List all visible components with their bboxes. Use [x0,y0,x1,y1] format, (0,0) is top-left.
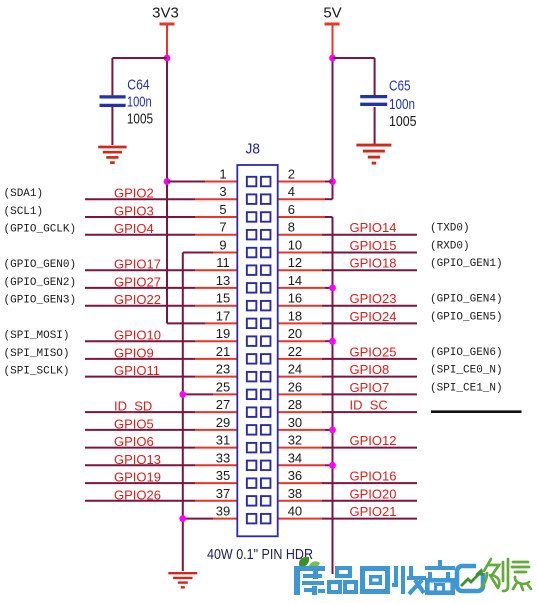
ground under C65 [356,144,391,147]
wire pin 27 [85,411,237,413]
junction 5V/C65 [329,55,336,62]
connector J8 [237,165,277,536]
svg-text:28: 28 [288,397,302,412]
wire pin 30 [278,429,333,431]
wire pin 14 [278,287,333,289]
svg-text:GPIO7: GPIO7 [350,380,390,395]
svg-text:GPIO14: GPIO14 [350,220,397,235]
svg-text:(SPI_MOSI): (SPI_MOSI) [4,330,70,342]
svg-text:(GPIO_GEN3): (GPIO_GEN3) [4,295,77,307]
wire pin 16 [278,305,417,307]
wire pin 6 [278,216,333,218]
wire pin 37 [85,500,237,502]
junction GND/pin 14 [329,285,336,292]
unconnected net line (right, row 28) [431,410,522,413]
svg-text:100n: 100n [127,93,152,110]
svg-text:(SPI_CE0_N): (SPI_CE0_N) [430,365,503,377]
wire pin 17 [167,322,237,324]
svg-text:GPIO17: GPIO17 [114,257,161,272]
svg-text:GPIO10: GPIO10 [114,328,161,343]
svg-text:34: 34 [288,450,302,465]
svg-text:GPIO16: GPIO16 [350,469,397,484]
svg-text:GPIO23: GPIO23 [350,291,397,306]
wire pin 2 [278,181,333,183]
wire pin 24 [278,376,417,378]
wire pin 28 [278,411,417,413]
svg-text:20: 20 [288,326,302,341]
svg-text:(TXD0): (TXD0) [430,223,470,235]
wire pin 38 [278,500,417,502]
svg-text:26: 26 [288,379,302,394]
junction GND/pin25 [179,391,186,398]
wire pin 36 [278,482,417,484]
svg-text:8: 8 [288,220,295,235]
svg-text:(GPIO_GEN5): (GPIO_GEN5) [430,311,503,323]
wire pin 29 [85,429,237,431]
svg-text:39: 39 [216,504,230,519]
svg-text:(SPI_SCLK): (SPI_SCLK) [4,366,70,378]
svg-text:18: 18 [288,308,302,323]
svg-text:22: 22 [288,344,302,359]
svg-text:2: 2 [288,167,295,182]
svg-text:GPIO25: GPIO25 [350,344,397,359]
svg-text:GPIO20: GPIO20 [350,486,397,501]
svg-text:3V3: 3V3 [152,5,179,22]
junction GND/pin 30 [329,427,336,434]
svg-text:27: 27 [216,397,230,412]
GND rail right wire [332,217,334,574]
wire pin 10 [278,252,417,254]
svg-text:(SCL1): (SCL1) [4,206,44,218]
svg-text:GPIO3: GPIO3 [114,204,154,219]
svg-text:1: 1 [219,167,226,182]
svg-text:17: 17 [216,308,230,323]
svg-text:3: 3 [219,184,226,199]
svg-text:ID_SC: ID_SC [350,398,388,413]
power symbol 3V3 [152,5,179,59]
wire to C65 [333,57,375,59]
svg-text:14: 14 [288,273,302,288]
junction 3V3/C64 [164,55,171,62]
svg-text:GPIO9: GPIO9 [114,345,154,360]
svg-text:38: 38 [288,486,302,501]
svg-text:GPIO12: GPIO12 [350,433,397,448]
svg-text:7: 7 [219,220,226,235]
wire pin 40 [278,518,417,520]
svg-text:35: 35 [216,468,230,483]
wire pin 32 [278,447,417,449]
wire pin 23 [85,376,237,378]
svg-text:5: 5 [219,202,226,217]
svg-text:(GPIO_GEN4): (GPIO_GEN4) [430,294,503,306]
svg-text:12: 12 [288,255,302,270]
svg-text:32: 32 [288,433,302,448]
wire pin 35 [85,482,237,484]
svg-text:GPIO19: GPIO19 [114,470,161,485]
svg-text:16: 16 [288,291,302,306]
junction 3V3/pin1 [164,178,171,185]
svg-text:11: 11 [216,255,230,270]
svg-text:(GPIO_GEN6): (GPIO_GEN6) [430,347,503,359]
svg-text:ID_SD: ID_SD [114,399,152,414]
svg-text:37: 37 [216,486,230,501]
svg-text:J8: J8 [246,141,260,158]
capacitor C65 [360,58,416,145]
svg-text:(GPIO_GEN0): (GPIO_GEN0) [4,259,77,271]
svg-text:24: 24 [288,362,302,377]
wire pin 8 [278,234,417,236]
svg-text:100n: 100n [389,96,415,113]
ground under C64 [98,146,126,149]
svg-text:(GPIO_GCLK): (GPIO_GCLK) [4,224,77,236]
svg-text:GPIO22: GPIO22 [114,292,161,307]
junction 5V/pin2 [329,178,336,185]
svg-text:(SDA1): (SDA1) [4,188,44,200]
pin numbers [216,167,302,519]
wire pin 3 [85,198,237,200]
svg-text:36: 36 [288,468,302,483]
wire pin 22 [278,358,417,360]
wire to C64 [112,57,167,59]
svg-text:GPIO21: GPIO21 [350,504,397,519]
svg-text:GPIO24: GPIO24 [350,309,397,324]
wire pin 13 [85,287,237,289]
wire pin 21 [85,358,237,360]
svg-text:GPIO5: GPIO5 [114,416,154,431]
wire pin 20 [278,340,333,342]
svg-text:15: 15 [216,291,230,306]
junction GND/pin 34 [329,462,336,469]
wire pin 26 [278,393,417,395]
svg-text:(GPIO_GEN1): (GPIO_GEN1) [430,258,503,270]
wire pin 9 [183,252,238,254]
GND rail left wire [182,253,184,572]
svg-text:GPIO11: GPIO11 [114,363,160,378]
svg-text:GPIO8: GPIO8 [350,362,390,377]
svg-text:10: 10 [288,238,302,253]
svg-text:(GPIO_GEN2): (GPIO_GEN2) [4,277,77,289]
svg-text:C64: C64 [127,77,149,94]
svg-text:GPIO18: GPIO18 [350,256,397,271]
wire pin 12 [278,269,417,271]
wire pin 7 [85,234,237,236]
wire pin 25 [183,393,238,395]
svg-text:29: 29 [216,415,230,430]
svg-text:GPIO26: GPIO26 [114,487,161,502]
wire pin 33 [85,464,237,466]
wire pin 19 [85,340,237,342]
svg-text:1005: 1005 [389,113,417,130]
junction GND/pin39 [179,515,186,522]
svg-text:25: 25 [216,379,230,394]
svg-text:40W 0.1" PIN HDR: 40W 0.1" PIN HDR [207,546,313,563]
svg-text:GPIO27: GPIO27 [114,274,161,289]
svg-text:GPIO13: GPIO13 [114,452,161,467]
svg-text:30: 30 [288,415,302,430]
wire pin 4 [278,198,333,200]
ground bottom [168,572,197,574]
svg-text:(SPI_CE1_N): (SPI_CE1_N) [430,382,503,394]
svg-text:19: 19 [216,326,230,341]
wire pin 15 [85,305,237,307]
svg-text:(SPI_MISO): (SPI_MISO) [4,348,70,360]
svg-text:(RXD0): (RXD0) [430,241,470,253]
svg-text:13: 13 [216,273,230,288]
net 3V3 vertical rail wire [166,58,168,323]
wire pin 39 [183,518,238,520]
capacitor C64 [100,58,154,145]
svg-text:GPIO2: GPIO2 [114,186,154,201]
wire pin 18 [278,322,417,324]
wire pin 31 [85,447,237,449]
junction GND/pin 20 [329,338,336,345]
svg-text:GPIO15: GPIO15 [350,238,397,253]
wire pin 1 [167,181,237,183]
svg-text:5V: 5V [323,5,341,22]
svg-text:21: 21 [216,344,230,359]
watermark [294,557,531,595]
power symbol 5V [323,5,341,59]
svg-text:31: 31 [216,433,230,448]
svg-text:9: 9 [219,238,226,253]
svg-text:6: 6 [288,202,295,217]
svg-text:40: 40 [288,504,302,519]
svg-text:GPIO6: GPIO6 [114,434,154,449]
svg-text:4: 4 [288,184,295,199]
svg-text:33: 33 [216,450,230,465]
svg-text:1005: 1005 [127,110,153,127]
svg-text:GPIO4: GPIO4 [114,221,154,236]
svg-text:C65: C65 [389,77,411,94]
wire pin 34 [278,464,333,466]
svg-text:23: 23 [216,362,230,377]
net 5V vertical rail wire [332,58,334,199]
wire pin 11 [85,269,237,271]
wire pin 5 [85,216,237,218]
